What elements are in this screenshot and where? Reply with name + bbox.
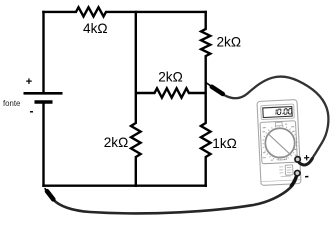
svg-text:2kΩ: 2kΩ <box>217 35 242 50</box>
wire bottom <box>42 184 207 186</box>
multimeter U1 <box>257 100 301 186</box>
multimeter display window <box>263 107 292 118</box>
black probe needle at node D <box>45 188 49 193</box>
multimeter fuse label lines <box>279 166 291 176</box>
red lead plug at jack <box>298 159 313 165</box>
multimeter body <box>257 100 301 186</box>
svg-text:+: + <box>303 152 310 164</box>
svg-text:1kΩ: 1kΩ <box>212 136 237 151</box>
red probe needle at node B <box>205 82 212 86</box>
multimeter selector top box <box>276 122 283 126</box>
multimeter jack minus <box>294 170 300 176</box>
red test lead wire <box>223 77 328 160</box>
multimeter display frame <box>261 104 295 120</box>
multimeter jack plus <box>294 152 311 184</box>
wire right vertical with resistor R2 and resistor R5 <box>201 11 211 187</box>
multimeter reading 10.00 <box>276 109 292 115</box>
battery fonte positive plate <box>24 92 63 95</box>
black probe body <box>47 191 53 199</box>
black lead plug at jack <box>291 173 297 186</box>
multimeter dial panel <box>260 121 297 164</box>
multimeter bottom scale box <box>278 156 286 160</box>
red probe body <box>212 87 223 94</box>
wire middle horizontal with resistor R3 <box>136 88 206 97</box>
battery fonte negative plate <box>35 100 53 104</box>
svg-text:-: - <box>30 104 34 118</box>
svg-text:-: - <box>304 168 309 183</box>
wire left vertical lower <box>42 104 44 188</box>
svg-text:2kΩ: 2kΩ <box>104 135 129 150</box>
wire top with resistor R1 <box>42 7 207 16</box>
multimeter knob pointer <box>269 134 291 156</box>
svg-text:2kΩ: 2kΩ <box>158 69 183 84</box>
wire left vertical upper <box>42 11 44 93</box>
svg-text:+: + <box>26 76 32 88</box>
multimeter dial tick ring <box>262 125 299 162</box>
wire middle vertical with resistor R4 <box>131 11 141 187</box>
multimeter dial circle <box>265 128 296 159</box>
svg-text:fonte: fonte <box>3 99 20 108</box>
multimeter fuse box <box>285 165 293 175</box>
multimeter body seam <box>261 180 300 182</box>
multimeter micro labels <box>261 124 297 161</box>
black test lead wire <box>54 174 298 214</box>
svg-text:4kΩ: 4kΩ <box>83 21 108 36</box>
